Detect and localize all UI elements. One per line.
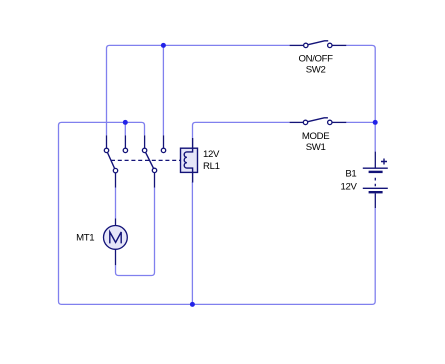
relay contact terminal throw 2 [123, 148, 127, 152]
relay contact terminal throw 3 [142, 148, 146, 152]
battery B1 cell 2 long plate [363, 187, 388, 189]
junction dot right vertical at SW1 [373, 120, 378, 125]
relay RL1 coil body [181, 148, 198, 172]
relay contact terminal throw 4 [161, 148, 165, 152]
wire top rail left + left vertical drop to contact throw 1 [107, 45, 290, 135]
wire stub from mode-rail junction down to contact throw 2 [124, 122, 126, 135]
pin battery top [374, 152, 376, 169]
svg-text:12V: 12V [203, 149, 220, 160]
pin SW2 left [290, 44, 304, 46]
pin SW1 right [332, 121, 346, 123]
svg-text:SW1: SW1 [306, 142, 326, 153]
pin motor top [115, 219, 117, 226]
relay RL1 coil winding [184, 138, 192, 183]
relay contact pole terminal 2 [152, 168, 156, 172]
pin motor bottom [115, 249, 117, 265]
wire relay coil bottom down to bottom rail [191, 182, 193, 304]
motor MT1 letter M [110, 232, 121, 243]
switch SW1 right terminal [328, 120, 332, 124]
pin contact throw 3 [144, 135, 146, 148]
switch SW1 blade [308, 118, 328, 122]
junction dot bottom rail at relay [190, 302, 195, 307]
battery B1 cell 2 short plate [369, 191, 383, 193]
relay RL1 dashed actuation link [111, 159, 181, 161]
switch SW2 blade [308, 41, 328, 45]
pin contact throw 4 [163, 135, 165, 148]
pin contact pole 2 [154, 173, 156, 188]
motor MT1 body [104, 226, 128, 250]
wire left loop: mode rail left part, left vertical, bottom rail, right vertical bottom [59, 122, 376, 304]
switch SW2 right terminal [328, 43, 332, 47]
svg-text:B1: B1 [345, 169, 356, 180]
relay contact pole terminal 1 [113, 168, 117, 172]
svg-text:SW2: SW2 [306, 65, 326, 76]
pin SW1 left [290, 121, 304, 123]
wire mode rail right part + drop to relay coil top [193, 122, 290, 138]
switch SW2 left terminal [304, 43, 308, 47]
wire SW1 right pin to right vertical [346, 121, 375, 123]
svg-text:ON/OFF: ON/OFF [299, 54, 334, 65]
switch SW1 left terminal [303, 120, 307, 124]
pin contact throw 2 [124, 135, 126, 148]
battery B1 inter-cell dashed link [374, 178, 376, 186]
wire motor bottom loop up to contact pole 2 [116, 187, 155, 275]
pin contact throw 1 [106, 135, 108, 148]
pin contact pole 1 [115, 173, 117, 188]
wire top rail right + right vertical down to battery [346, 45, 375, 151]
svg-text:RL1: RL1 [203, 161, 220, 172]
svg-text:MT1: MT1 [76, 232, 94, 243]
wire vertical from top-rail junction down to contact throw 4 [162, 45, 164, 135]
svg-text:12V: 12V [340, 181, 357, 192]
relay contact terminal throw 1 [104, 148, 108, 152]
svg-text:MODE: MODE [302, 131, 329, 142]
junction dot mode rail left [123, 120, 128, 125]
junction dot top rail [161, 43, 166, 48]
relay contact blade 2 [145, 150, 155, 170]
battery B1 cell 1 long plate [363, 167, 388, 169]
relay contact blade 1 [107, 150, 116, 170]
battery B1 cell 1 short plate [369, 171, 383, 173]
pin battery bottom [374, 193, 376, 208]
pin SW2 right [332, 44, 346, 46]
battery B1 plus sign [381, 159, 387, 165]
wire contact pole 1 down to motor top [115, 187, 117, 218]
